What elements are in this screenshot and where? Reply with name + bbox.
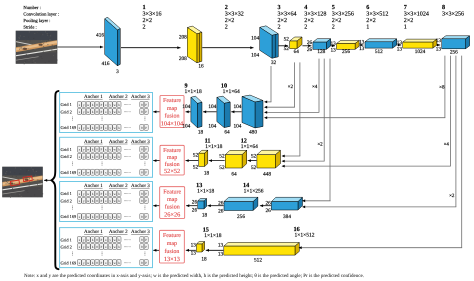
svg-text:······: ······ <box>124 110 131 114</box>
svg-text:18: 18 <box>204 171 210 177</box>
svg-text:······: ······ <box>124 261 131 265</box>
svg-text:×2: ×2 <box>317 142 323 148</box>
svg-text:16: 16 <box>198 64 204 70</box>
svg-text:P: P <box>101 238 103 242</box>
svg-text:2×2: 2×2 <box>332 17 342 24</box>
svg-text:3×3×512: 3×3×512 <box>366 11 388 18</box>
svg-text:fusion: fusion <box>165 161 180 168</box>
svg-text:1×1×18: 1×1×18 <box>205 144 222 150</box>
svg-text:······: ······ <box>124 199 131 203</box>
svg-text:······: ······ <box>124 192 131 196</box>
svg-text:······: ······ <box>124 245 131 249</box>
svg-text:18: 18 <box>201 257 207 263</box>
svg-text:2: 2 <box>278 24 281 31</box>
svg-text:52: 52 <box>219 154 225 160</box>
svg-text:P: P <box>101 199 103 203</box>
svg-text:208: 208 <box>179 56 187 62</box>
svg-text:Grid 169: Grid 169 <box>61 260 78 265</box>
svg-text:18: 18 <box>202 213 208 219</box>
svg-text:384: 384 <box>283 214 291 220</box>
svg-text:Pooling layer :: Pooling layer : <box>23 18 50 23</box>
svg-text:480: 480 <box>249 130 257 136</box>
svg-text:52: 52 <box>284 37 290 43</box>
svg-text:52: 52 <box>193 165 199 171</box>
svg-text:P: P <box>101 110 103 114</box>
svg-text:P: P <box>101 155 103 159</box>
svg-text:Grid 1: Grid 1 <box>61 191 72 196</box>
svg-text:5: 5 <box>332 4 335 11</box>
svg-text:⋮: ⋮ <box>143 251 148 256</box>
svg-text:3×3×1024: 3×3×1024 <box>404 11 429 18</box>
svg-text:32: 32 <box>271 60 277 66</box>
svg-text:Feature: Feature <box>163 98 181 104</box>
svg-text:1×1×64: 1×1×64 <box>223 89 240 95</box>
svg-text:⋮: ⋮ <box>143 116 148 121</box>
svg-text:P: P <box>145 261 147 265</box>
svg-text:1×1×18: 1×1×18 <box>185 89 202 95</box>
svg-text:13×13: 13×13 <box>164 256 180 263</box>
svg-text:208: 208 <box>179 35 187 41</box>
svg-text:Grid 169: Grid 169 <box>61 170 78 175</box>
svg-text:P: P <box>145 148 147 152</box>
svg-text:fusion: fusion <box>165 204 180 211</box>
svg-text:26: 26 <box>218 208 224 214</box>
svg-text:26×26: 26×26 <box>164 211 180 218</box>
svg-text:52: 52 <box>251 154 257 160</box>
svg-text:Grid 2: Grid 2 <box>61 154 72 159</box>
svg-text:P: P <box>145 103 147 107</box>
svg-text:3×3×128: 3×3×128 <box>304 11 326 18</box>
svg-text:2: 2 <box>225 4 228 11</box>
svg-text:P: P <box>101 148 103 152</box>
svg-text:P: P <box>145 199 147 203</box>
svg-text:Feature: Feature <box>163 148 181 154</box>
svg-text:P: P <box>145 155 147 159</box>
svg-text:416: 416 <box>96 33 104 39</box>
svg-text:⋮: ⋮ <box>70 251 75 256</box>
svg-text:512: 512 <box>375 49 383 55</box>
svg-text:7: 7 <box>404 4 407 11</box>
svg-text:×2: ×2 <box>449 193 455 199</box>
svg-text:104: 104 <box>233 124 241 130</box>
svg-text:fusion: fusion <box>165 113 180 120</box>
svg-text:8: 8 <box>442 4 445 11</box>
svg-text:64: 64 <box>294 49 300 55</box>
svg-text:P: P <box>145 215 147 219</box>
svg-text:P: P <box>145 171 147 175</box>
svg-text:Grid 1: Grid 1 <box>61 237 72 242</box>
svg-text:1×1×512: 1×1×512 <box>295 233 315 239</box>
svg-text:⋮: ⋮ <box>70 161 75 166</box>
svg-text:2×2: 2×2 <box>278 17 288 24</box>
svg-text:······: ······ <box>124 238 131 242</box>
svg-text:Feature: Feature <box>163 233 181 239</box>
svg-text:Grid 1: Grid 1 <box>61 147 72 152</box>
svg-text:Grid 2: Grid 2 <box>61 109 72 114</box>
svg-text:1×1×18: 1×1×18 <box>197 189 214 195</box>
svg-text:······: ······ <box>124 215 131 219</box>
svg-text:448: 448 <box>263 172 271 178</box>
svg-text:1×1×64: 1×1×64 <box>241 144 258 150</box>
svg-text:256: 256 <box>342 49 350 55</box>
svg-text:2×2: 2×2 <box>366 17 376 24</box>
svg-text:3: 3 <box>278 4 281 11</box>
svg-text:416: 416 <box>102 61 110 67</box>
svg-text:P: P <box>145 245 147 249</box>
svg-text:128: 128 <box>317 49 325 55</box>
svg-text:26: 26 <box>192 208 198 214</box>
svg-text:Note: x and y are the predic: Note: x and y are the predicted coordina… <box>24 273 364 279</box>
svg-text:13: 13 <box>436 38 442 44</box>
svg-text:P: P <box>145 126 147 130</box>
svg-text:2: 2 <box>225 24 228 31</box>
svg-text:104: 104 <box>182 104 190 110</box>
svg-text:13: 13 <box>218 242 224 248</box>
svg-text:×8: ×8 <box>439 84 445 90</box>
svg-text:26: 26 <box>192 200 198 206</box>
svg-text:Grid 1: Grid 1 <box>61 102 72 107</box>
svg-text:13: 13 <box>436 47 442 53</box>
svg-text:512: 512 <box>254 258 262 264</box>
svg-text:P: P <box>101 126 103 130</box>
svg-text:104: 104 <box>208 124 216 130</box>
svg-text:map: map <box>167 241 177 247</box>
svg-text:P: P <box>101 245 103 249</box>
svg-text:×4: ×4 <box>312 84 318 90</box>
svg-text:52: 52 <box>193 153 199 159</box>
svg-text:······: ······ <box>124 103 131 107</box>
svg-text:×4: ×4 <box>444 142 450 148</box>
svg-text:2×2: 2×2 <box>225 17 235 24</box>
svg-text:P: P <box>145 110 147 114</box>
svg-text:3×3×256: 3×3×256 <box>442 11 464 18</box>
svg-text:⋮: ⋮ <box>70 205 75 210</box>
svg-text:104: 104 <box>182 124 190 130</box>
svg-text:P: P <box>101 192 103 196</box>
svg-text:18: 18 <box>198 130 204 136</box>
svg-text:2: 2 <box>304 24 307 31</box>
svg-text:256: 256 <box>450 50 458 56</box>
svg-text:6: 6 <box>366 4 369 11</box>
svg-text:fusion: fusion <box>164 248 179 255</box>
svg-text:13: 13 <box>218 252 224 258</box>
svg-text:1: 1 <box>366 24 369 31</box>
svg-text:2: 2 <box>332 24 335 31</box>
svg-text:52: 52 <box>284 46 290 52</box>
svg-text:P: P <box>101 103 103 107</box>
svg-text:Grid 169: Grid 169 <box>61 125 78 130</box>
svg-text:map: map <box>167 106 177 112</box>
svg-text:1024: 1024 <box>415 49 426 55</box>
svg-text:······: ······ <box>124 155 131 159</box>
svg-text:1×1×256: 1×1×256 <box>244 189 264 195</box>
svg-text:P: P <box>101 261 103 265</box>
svg-text:1: 1 <box>143 4 146 11</box>
svg-text:52: 52 <box>219 165 225 171</box>
svg-text:×2: ×2 <box>288 84 294 90</box>
svg-text:1: 1 <box>404 24 407 31</box>
svg-text:P: P <box>145 192 147 196</box>
svg-text:1×1×18: 1×1×18 <box>204 233 221 239</box>
svg-text:13: 13 <box>331 48 337 54</box>
svg-text:Feature: Feature <box>163 189 181 195</box>
svg-text:13: 13 <box>359 46 365 52</box>
svg-text:Grid 169: Grid 169 <box>61 214 78 219</box>
svg-text:Convolution layer :: Convolution layer : <box>23 11 59 16</box>
svg-text:⋮: ⋮ <box>143 205 148 210</box>
svg-text:3×3×32: 3×3×32 <box>225 11 244 18</box>
svg-text:3×3×256: 3×3×256 <box>332 11 354 18</box>
svg-text:13: 13 <box>397 47 403 53</box>
svg-text:P: P <box>145 238 147 242</box>
svg-text:P: P <box>101 171 103 175</box>
svg-text:256: 256 <box>237 214 245 220</box>
svg-text:104: 104 <box>251 36 259 42</box>
svg-text:map: map <box>167 197 177 203</box>
svg-text:64: 64 <box>231 172 237 178</box>
svg-text:⋮: ⋮ <box>70 116 75 121</box>
svg-text:Number :: Number : <box>23 5 40 10</box>
svg-text:2×2: 2×2 <box>143 17 153 24</box>
svg-text:4: 4 <box>304 4 307 11</box>
svg-text:Grid 2: Grid 2 <box>61 198 72 203</box>
svg-text:104: 104 <box>233 104 241 110</box>
svg-text:104×104: 104×104 <box>161 121 184 128</box>
svg-text:······: ······ <box>124 171 131 175</box>
svg-text:13: 13 <box>191 242 197 248</box>
svg-text:26: 26 <box>266 208 272 214</box>
svg-text:······: ······ <box>124 126 131 130</box>
svg-text:⋮: ⋮ <box>100 116 105 121</box>
svg-text:13: 13 <box>191 251 197 257</box>
svg-text:104: 104 <box>251 53 259 59</box>
svg-text:26: 26 <box>307 47 313 53</box>
svg-text:⋮: ⋮ <box>100 205 105 210</box>
svg-text:Grid 2: Grid 2 <box>61 244 72 249</box>
svg-text:P: P <box>101 215 103 219</box>
svg-text:3×3×16: 3×3×16 <box>143 11 162 18</box>
svg-text:3: 3 <box>116 69 119 75</box>
svg-text:Stride :: Stride : <box>23 24 36 29</box>
svg-text:······: ······ <box>124 148 131 152</box>
svg-text:2: 2 <box>143 24 146 31</box>
svg-text:52: 52 <box>251 165 257 171</box>
svg-text:104: 104 <box>208 104 216 110</box>
svg-text:map: map <box>167 155 177 161</box>
svg-text:3×3×64: 3×3×64 <box>278 11 297 18</box>
svg-text:⋮: ⋮ <box>143 161 148 166</box>
svg-text:64: 64 <box>224 130 230 136</box>
svg-text:2×2: 2×2 <box>404 17 414 24</box>
svg-text:52×52: 52×52 <box>164 168 180 175</box>
svg-text:2×2: 2×2 <box>304 17 314 24</box>
svg-text:⋮: ⋮ <box>100 161 105 166</box>
svg-text:⋮: ⋮ <box>100 251 105 256</box>
